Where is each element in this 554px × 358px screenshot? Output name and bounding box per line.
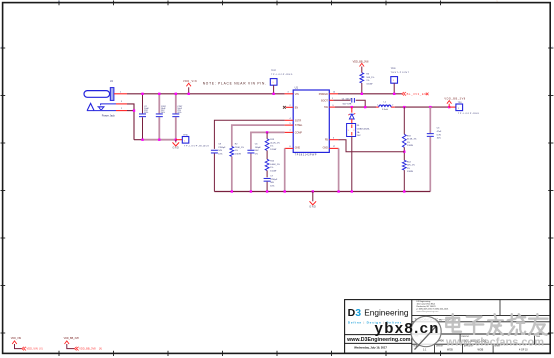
svg-text:VDD_VIN: VDD_VIN: [27, 347, 38, 351]
pin 7 COMP of U1: [285, 130, 294, 132]
svg-text:2: 2: [392, 105, 393, 107]
power flag VDD_BB_3V8 bottom left: [64, 337, 80, 349]
svg-text:TP-LOOP-BLACK: TP-LOOP-BLACK: [184, 145, 210, 148]
svg-text:VDD_BB_3V8: VDD_BB_3V8: [64, 337, 80, 340]
svg-text:C1 .001uF: C1 .001uF: [342, 98, 353, 100]
svg-text:1: 1: [497, 1, 498, 3]
svg-text:www.d3engineering.com: www.d3engineering.com: [417, 311, 439, 313]
junction C2 bottom: [141, 139, 143, 141]
svg-text:1: 1: [348, 130, 349, 132]
svg-text:50V: 50V: [270, 182, 274, 184]
svg-text:Wednesday, July 19, 2017: Wednesday, July 19, 2017: [354, 346, 387, 350]
svg-text:50V: 50V: [255, 150, 259, 152]
svg-text:VDD_VIN: VDD_VIN: [11, 337, 22, 340]
wire SW net: [335, 106, 376, 108]
connector J4 power jack: [84, 79, 116, 118]
svg-text:1: 1: [273, 82, 274, 84]
pin 17 GND pad of U1: [329, 146, 338, 148]
capacitor C3 47uF: [427, 107, 442, 191]
junction C2 top: [141, 93, 143, 95]
junction C207 top: [175, 93, 177, 95]
junction ground bus x=404.3: [403, 190, 405, 192]
svg-text:6: 6: [333, 137, 334, 139]
svg-text:7: 7: [290, 130, 291, 132]
test point TP4 TP-LOOP-RED output: [449, 102, 480, 115]
svg-text:GND: GND: [309, 205, 316, 208]
svg-text:1/10W: 1/10W: [270, 170, 276, 172]
svg-text:1/10W: 1/10W: [407, 171, 413, 173]
wire BOOT net: [333, 100, 365, 107]
svg-text:EN: EN: [295, 106, 299, 109]
svg-text:TP28: TP28: [391, 68, 397, 70]
svg-text:4: 4: [59, 1, 60, 3]
svg-text:2: 2: [121, 108, 122, 110]
junction divider top: [403, 106, 405, 108]
power flag VDD_VIN bottom left: [11, 337, 22, 349]
svg-text:SSTR: SSTR: [295, 119, 302, 122]
junction C207 bottom: [175, 139, 177, 141]
svg-text:STSEL: STSEL: [295, 124, 303, 127]
svg-text:6.3V: 6.3V: [437, 134, 442, 136]
svg-text:FB: FB: [325, 139, 328, 142]
junction output flag: [448, 106, 450, 108]
svg-text:1%: 1%: [407, 142, 410, 144]
svg-text:1%: 1%: [235, 150, 238, 152]
svg-text:41.2K_1%: 41.2K_1%: [270, 142, 280, 144]
svg-text:4 OF 10: 4 OF 10: [519, 349, 528, 352]
svg-text:2700pF: 2700pF: [270, 179, 278, 181]
wire SSTR net: [214, 120, 284, 149]
pin 3 of J4: [116, 101, 127, 104]
svg-text:10%: 10%: [218, 154, 222, 156]
pin 6 FB of U1: [329, 137, 338, 139]
svg-text:1%: 1%: [366, 80, 369, 82]
svg-text:1/10W: 1/10W: [270, 149, 276, 151]
svg-text:NOTE: PLACE NEAR VIN PIN.: NOTE: PLACE NEAR VIN PIN.: [203, 81, 267, 85]
wire U1 left GND to bus: [284, 148, 286, 191]
svg-text:10%: 10%: [270, 185, 274, 187]
wire net VDD_VIN from J4 pin1 to U1 VIN: [127, 93, 285, 95]
svg-text:Power Jack: Power Jack: [102, 114, 116, 117]
resistor RT2 31.6K: [402, 107, 416, 147]
capacitor C2 10uF: [139, 94, 150, 140]
svg-text:5: 5: [290, 123, 291, 125]
svg-text:10%: 10%: [437, 138, 441, 140]
power flag VDD_VIN: [183, 80, 197, 94]
svg-text:WOB: WOB: [478, 349, 484, 352]
svg-text:1: 1: [377, 105, 378, 107]
junction ground bus x=312.8: [312, 190, 314, 192]
pin 2 of J4: [116, 108, 127, 110]
svg-text:VDD_BB_3V8: VDD_BB_3V8: [353, 61, 369, 64]
pin 1 BOOT of U1: [329, 98, 333, 100]
svg-text:DWN BY: DWN BY: [436, 345, 444, 347]
svg-text:20%: 20%: [161, 112, 165, 114]
svg-text:8: 8: [290, 146, 291, 148]
pin 3 VIN of U1: [285, 92, 294, 94]
svg-text:20%: 20%: [177, 112, 181, 114]
wire input cap ground bus: [143, 139, 177, 141]
svg-text:BL_3V3_EN: BL_3V3_EN: [407, 92, 427, 96]
capacitor C8 2700pF: [211, 144, 226, 192]
junction TP47: [272, 93, 274, 95]
junction FB node: [403, 147, 405, 160]
svg-text:[X]: [X]: [99, 348, 102, 351]
svg-text:1/10W: 1/10W: [407, 145, 413, 147]
junction ground bus x=351.8: [351, 190, 353, 192]
svg-text:3: 3: [288, 92, 289, 94]
wire ground bus: [214, 191, 430, 193]
wire J4 pins 2,3 to ground bus of input caps: [127, 104, 144, 140]
svg-text:1%: 1%: [270, 167, 273, 169]
resistor R13 41.2K: [265, 132, 280, 151]
svg-text:2: 2: [353, 130, 354, 132]
resistor R14 10K: [402, 160, 415, 191]
inductor L1 3.3uH: [376, 102, 395, 112]
svg-text:Engineering: Engineering: [364, 307, 409, 317]
svg-text:50V X7R: 50V X7R: [343, 103, 352, 105]
wire PWRGD net: [338, 93, 402, 95]
diode D1 CDBZC0520: [347, 107, 371, 137]
svg-text:TP15: TP15: [183, 134, 188, 136]
svg-text:VDD_BB_3V8: VDD_BB_3V8: [79, 347, 96, 351]
junction VDD_VIN flag: [188, 93, 190, 95]
svg-text:10K_1%: 10K_1%: [407, 165, 415, 167]
pin 9 SW of U1: [329, 105, 335, 107]
test point TP15 TP-LOOP-BLACK: [176, 134, 210, 147]
svg-text:[X]: [X]: [40, 348, 43, 351]
junction ground bus x=338.6: [337, 190, 339, 192]
test point TP47 TP-LOOP-RED: [270, 70, 293, 94]
ground GND input section: [172, 140, 179, 150]
junction TP28: [393, 93, 395, 95]
svg-text:100pF: 100pF: [255, 147, 262, 149]
svg-text:3: 3: [121, 101, 122, 103]
pin 1 of J4: [114, 92, 127, 94]
svg-text:1%: 1%: [270, 146, 273, 148]
svg-text:3: 3: [355, 307, 361, 319]
junction C3 top: [429, 106, 431, 108]
capacitor C202 10uF: [156, 94, 167, 140]
wire COMP net: [251, 132, 285, 149]
svg-text:47uF: 47uF: [437, 131, 442, 133]
power flag VDD_BB_3V8 pullup: [353, 61, 369, 73]
svg-text:VIN: VIN: [295, 93, 299, 96]
capacitor C7 2700pF: [264, 176, 278, 192]
wire STSEL net: [232, 125, 285, 147]
svg-text:TEST-POINT: TEST-POINT: [391, 72, 410, 74]
junction J4 pin2: [133, 109, 135, 111]
svg-text:1: 1: [184, 141, 185, 143]
junction ground bus x=267.1: [266, 190, 268, 192]
junction COMP branch: [266, 131, 268, 133]
svg-text:2: 2: [290, 105, 291, 107]
ground GND main: [309, 192, 316, 209]
resistor R2 10K: [230, 144, 244, 192]
svg-text:TP-LOOP-RED: TP-LOOP-RED: [271, 74, 293, 76]
svg-text:31.6K_1%: 31.6K_1%: [407, 139, 417, 141]
svg-text:GND: GND: [172, 146, 179, 149]
junction R3 on PWRGD: [361, 93, 363, 95]
svg-text:www.elecfans.com: www.elecfans.com: [445, 337, 544, 349]
svg-text:50V: 50V: [218, 150, 222, 152]
svg-text:10: 10: [333, 92, 335, 94]
junction C202 bottom: [158, 139, 160, 141]
svg-text:WOB: WOB: [447, 349, 453, 352]
resistor R3 10K pullup: [360, 73, 375, 94]
svg-text:VDD_VIN: VDD_VIN: [183, 80, 197, 83]
svg-text:1: 1: [458, 108, 459, 110]
pin 2 EN of U1 (no-connect): [283, 105, 293, 109]
off-page connector VDD_BB_3V8: [74, 347, 102, 351]
svg-text:3.3uH: 3.3uH: [382, 109, 388, 111]
pin 10 PWRGD of U1: [329, 92, 338, 94]
capacitor C6 100pF: [247, 144, 261, 192]
svg-text:TPS62142PWP: TPS62142PWP: [295, 154, 317, 156]
pin 5 STSEL of U1: [285, 123, 294, 125]
svg-text:2700pF: 2700pF: [218, 147, 226, 149]
off-page connector VDD_VIN: [22, 347, 43, 351]
svg-text:1/10W: 1/10W: [366, 84, 372, 86]
svg-text:VDD_BB_3V8: VDD_BB_3V8: [444, 97, 465, 100]
svg-text:1%: 1%: [407, 168, 410, 170]
capacitor C1 .001uF bootstrap: [342, 98, 355, 105]
junction ground bus x=250.9: [250, 190, 252, 192]
off-page connector BL_3V3_EN: [402, 92, 429, 96]
wire output net VDD_BB_3V8: [395, 106, 449, 108]
capacitor C207 10uF: [172, 94, 183, 140]
svg-text:5%: 5%: [255, 154, 258, 156]
svg-text:T10K_1%: T10K_1%: [235, 147, 244, 149]
svg-text:1: 1: [393, 80, 394, 82]
junction C202 top: [158, 93, 160, 95]
svg-text:1/10W: 1/10W: [235, 154, 241, 156]
resistor R15 6.04K: [265, 151, 280, 178]
junction ground bus x=284.7: [284, 190, 286, 192]
svg-text:PWRGD: PWRGD: [319, 93, 328, 96]
op-amp/regulator U1 TPS62142PWP: [293, 86, 329, 157]
svg-text:GND: GND: [323, 147, 329, 150]
junction BOOT cap on SW: [364, 106, 366, 108]
pin 8 GND of U1 left: [285, 146, 294, 148]
junction D1 on SW: [351, 106, 353, 108]
pin 4 SSTR of U1: [285, 118, 294, 120]
svg-text:COMP: COMP: [295, 132, 303, 135]
svg-text:1: 1: [332, 98, 333, 100]
svg-text:BOOT: BOOT: [321, 99, 328, 102]
svg-text:www.D3Engineering.com: www.D3Engineering.com: [346, 337, 411, 343]
test point TP28 TEST-POINT: [391, 68, 410, 94]
junction ground bus x=231.8: [231, 190, 233, 192]
svg-text:1: 1: [120, 92, 121, 94]
svg-text:20%: 20%: [144, 112, 148, 114]
svg-text:6.04K_1%: 6.04K_1%: [270, 164, 280, 166]
svg-text:9: 9: [333, 105, 334, 107]
svg-text:TP-LOOP-RED: TP-LOOP-RED: [458, 113, 480, 115]
svg-text:10K_1%: 10K_1%: [366, 77, 374, 79]
svg-text:TP47: TP47: [271, 70, 277, 72]
svg-text:17: 17: [333, 146, 335, 148]
power flag VDD_BB_3V8 output: [444, 97, 465, 107]
wire FB net: [338, 140, 404, 152]
svg-text:20V: 20V: [357, 135, 361, 137]
svg-text:CDBZC0520L: CDBZC0520L: [357, 129, 371, 131]
wire D1 anode to ground bus: [351, 137, 353, 192]
svg-text:GND: GND: [295, 147, 301, 150]
svg-text:ybx8.cn: ybx8.cn: [375, 320, 440, 337]
svg-text:U1: U1: [295, 86, 299, 90]
wire U1 right GND to bus: [338, 148, 340, 191]
svg-text:4: 4: [290, 118, 291, 120]
